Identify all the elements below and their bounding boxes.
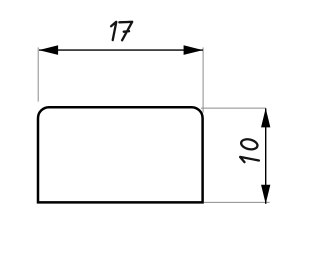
arrowhead left of dim 17 — [39, 45, 58, 55]
arrowhead bottom of dim 10 — [261, 185, 270, 204]
extension line right (vertical, from dim 17 down past part corner) — [202, 47, 204, 112]
dimension line 10 (vertical) — [265, 108, 267, 203]
part outline (rounded-top rectangle) — [38, 107, 203, 202]
arrowhead right of dim 17 — [184, 45, 203, 55]
extension line left (vertical, from dim 17 down to part) — [37, 47, 39, 101]
arrowhead top of dim 10 — [261, 108, 270, 127]
extension line bottom (horizontal, part bottom to dim 10) — [204, 201, 270, 203]
dimension line 17 (horizontal) — [39, 49, 203, 51]
dimension text 17 — [111, 22, 132, 41]
dimension text 10 (rotated) — [240, 138, 259, 162]
extension line top-right (horizontal, part top to dim 10) — [201, 107, 266, 109]
